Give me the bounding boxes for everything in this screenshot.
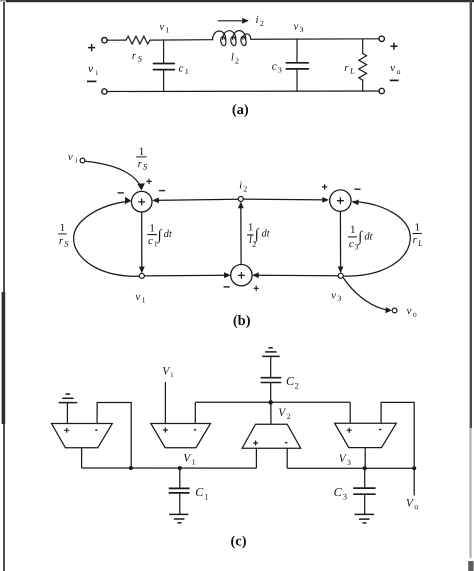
svg-text:v: v [88,63,94,75]
svg-text:C: C [195,485,204,499]
svg-text:3: 3 [347,458,351,467]
svg-text:L: L [349,65,355,75]
svg-text:1: 1 [142,295,146,304]
svg-text:v: v [407,305,412,317]
svg-text:r: r [59,235,64,247]
svg-text:v: v [68,151,73,163]
svg-text:dt: dt [164,229,173,240]
svg-text:2: 2 [235,56,239,65]
svg-text:v: v [294,20,299,32]
svg-text:1: 1 [204,491,208,501]
svg-text:c: c [179,63,184,75]
svg-text:v: v [135,291,140,303]
svg-text:1: 1 [165,25,169,34]
svg-text:r: r [413,234,418,246]
svg-text:L: L [417,238,423,248]
svg-text:c: c [349,238,354,250]
svg-text:1: 1 [350,224,356,236]
svg-text:v: v [331,290,336,302]
svg-text:2: 2 [260,19,264,28]
svg-text:S: S [64,238,69,248]
svg-text:o: o [414,502,418,511]
svg-text:1: 1 [139,146,145,158]
svg-text:r: r [344,62,349,74]
svg-text:1: 1 [414,221,420,233]
svg-text:1: 1 [60,222,66,234]
svg-text:i: i [239,180,242,192]
svg-text:C: C [334,485,343,499]
svg-text:o: o [413,310,417,319]
svg-text:1: 1 [149,222,155,234]
svg-text:1: 1 [192,457,196,466]
svg-text:l: l [231,52,234,64]
svg-text:1: 1 [185,67,189,76]
svg-text:2: 2 [295,381,299,391]
svg-text:c: c [148,235,153,247]
svg-text:v: v [390,62,395,74]
svg-text:S: S [138,54,143,64]
svg-text:dt: dt [262,229,271,240]
svg-text:3: 3 [278,65,282,74]
svg-text:2: 2 [287,412,291,421]
svg-text:i: i [255,14,258,26]
svg-text:1: 1 [248,222,254,234]
svg-text:(a): (a) [232,102,249,118]
svg-text:o: o [397,67,401,76]
svg-text:r: r [138,158,143,170]
svg-text:r: r [132,50,137,62]
svg-text:c: c [272,61,277,73]
svg-text:3: 3 [300,25,304,34]
svg-text:dt: dt [364,231,373,242]
svg-text:3: 3 [343,491,347,501]
svg-text:2: 2 [243,185,247,194]
svg-text:(b): (b) [233,313,251,329]
svg-text:3: 3 [337,294,341,303]
svg-text:v: v [159,21,164,33]
svg-text:(c): (c) [230,533,246,549]
